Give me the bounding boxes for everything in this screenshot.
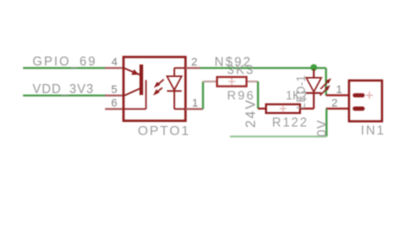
origin cross R96 — [228, 78, 235, 85]
wire from N$92 down to IN1 pin 1 — [325, 68, 327, 95]
origin cross IN1 pad1 — [366, 92, 373, 99]
resistor R122 — [258, 108, 266, 110]
pad 1 — [353, 93, 365, 97]
light arrows from LED to transistor — [156, 79, 164, 86]
svg-text:6: 6 — [111, 97, 117, 109]
svg-text:VDD_3V3: VDD_3V3 — [33, 82, 95, 96]
LED diode inside OPTO1 — [174, 67, 185, 69]
LED LED-1 — [313, 69, 315, 78]
transistor base bar — [140, 65, 144, 96]
svg-text:4: 4 — [111, 57, 117, 69]
svg-text:LED-1: LED-1 — [296, 75, 308, 109]
svg-text:24V: 24V — [243, 98, 258, 127]
svg-text:5: 5 — [111, 84, 117, 96]
transistor emitter diagonal with arrow — [125, 68, 141, 75]
wire IN1 pin2 down to 0V — [325, 109, 327, 137]
transistor collector diagonal — [125, 89, 141, 96]
wire GPIO_69 — [23, 67, 107, 69]
svg-text:IN1: IN1 — [361, 124, 386, 138]
connector IN1 body — [349, 81, 382, 122]
svg-text:2: 2 — [191, 56, 197, 68]
junction dot node N$92/LED — [310, 64, 317, 71]
pin 5 — [105, 95, 123, 97]
wire N$92 net — [200, 67, 326, 69]
wire 0V net — [230, 136, 327, 138]
pin 6 — [105, 108, 123, 110]
wire 24V net vertical — [257, 82, 259, 109]
connector IN1 pin 1 — [326, 94, 349, 96]
pin 4 — [105, 67, 123, 69]
transistor base line to pin 6 — [145, 80, 147, 109]
svg-text:2: 2 — [331, 97, 337, 109]
svg-text:OPTO1: OPTO1 — [138, 123, 190, 138]
resistor R96 — [203, 81, 217, 83]
svg-text:GPIO_69: GPIO_69 — [33, 55, 97, 69]
optocoupler OPTO1 body — [124, 57, 186, 121]
pad 2 — [353, 107, 365, 111]
svg-text:R122: R122 — [272, 115, 309, 129]
wire OPTO pin1 up to R96 — [202, 82, 204, 110]
svg-text:1: 1 — [192, 98, 198, 110]
connector IN1 pin 2 — [326, 108, 349, 110]
wire VDD_3V3 — [23, 94, 107, 96]
LED emission arrows — [321, 80, 330, 89]
pin 2 — [186, 67, 204, 69]
svg-text:0V: 0V — [315, 119, 329, 137]
pin 1 — [186, 108, 204, 110]
origin cross R122 — [280, 105, 287, 112]
svg-text:3K3: 3K3 — [227, 62, 255, 77]
svg-text:1: 1 — [336, 84, 342, 96]
